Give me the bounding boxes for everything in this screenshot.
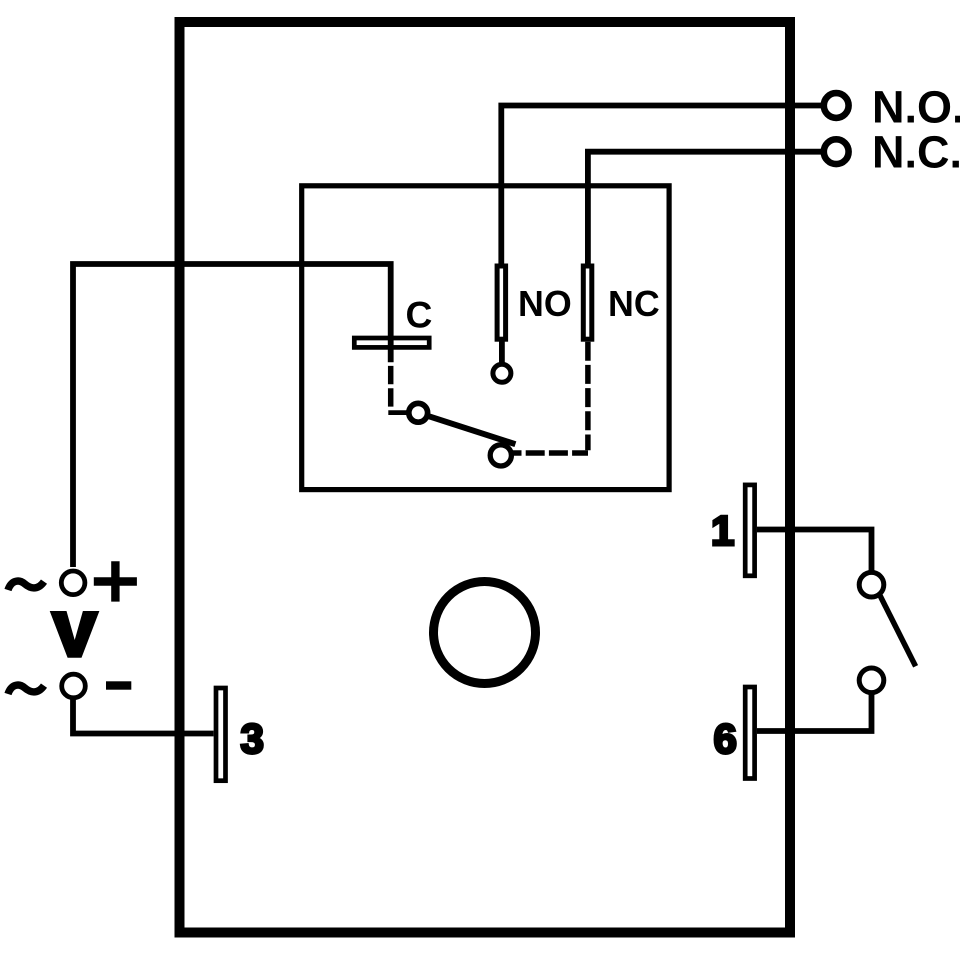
label minus sign bbox=[106, 681, 131, 689]
NO contact bar bbox=[497, 266, 506, 339]
supply - terminal circle bbox=[62, 674, 86, 698]
external switch bottom circle bbox=[859, 668, 884, 693]
wire dashed NC contact down bbox=[585, 342, 591, 451]
timer motor circle bbox=[434, 582, 536, 684]
capacitor C plate bbox=[354, 338, 429, 347]
NC contact bar bbox=[583, 266, 592, 339]
terminal bar 6 bbox=[745, 687, 754, 779]
inner relay box bbox=[302, 186, 669, 490]
N.C. terminal circle bbox=[824, 139, 849, 164]
wire NC contact to N.C. terminal bbox=[588, 152, 824, 266]
armature pivot circle bbox=[409, 403, 428, 422]
external switch top circle bbox=[859, 572, 884, 597]
terminal bar 3 bbox=[216, 688, 226, 781]
wire dashed common to NC bbox=[512, 450, 589, 456]
common contact circle bbox=[490, 445, 511, 466]
svg-text:3: 3 bbox=[241, 715, 264, 762]
label tilde AC bottom bbox=[8, 685, 44, 694]
label tilde AC top bbox=[8, 581, 44, 590]
NO bottom circle bbox=[493, 364, 511, 382]
label plus sign bbox=[94, 561, 137, 601]
supply + terminal circle bbox=[61, 571, 85, 595]
external switch blade bbox=[880, 596, 916, 667]
svg-text:1: 1 bbox=[711, 507, 734, 554]
NO contact bottom stub bbox=[499, 339, 505, 364]
wire supply+ to capacitor bbox=[73, 264, 391, 567]
armature blade bbox=[428, 416, 516, 444]
svg-text:C: C bbox=[406, 293, 433, 335]
terminal bar 1 bbox=[745, 485, 754, 576]
outer enclosure box bbox=[180, 22, 791, 933]
wire dashed capacitor to pivot bbox=[388, 366, 394, 408]
svg-text:N.C.: N.C. bbox=[872, 127, 960, 178]
wire terminal 1 to switch bbox=[757, 530, 872, 572]
wire supply- to terminal 3 bbox=[73, 698, 214, 734]
svg-text:NO: NO bbox=[518, 284, 572, 324]
svg-text:6: 6 bbox=[714, 715, 737, 762]
wire stub to pivot circle bbox=[388, 410, 407, 415]
svg-text:N.O.: N.O. bbox=[872, 82, 960, 133]
wire switch to terminal 6 bbox=[757, 691, 872, 731]
label V bbox=[50, 611, 100, 658]
svg-text:NC: NC bbox=[608, 284, 660, 324]
wire NO contact to N.O. terminal bbox=[501, 106, 824, 267]
N.O. terminal circle bbox=[824, 93, 849, 118]
